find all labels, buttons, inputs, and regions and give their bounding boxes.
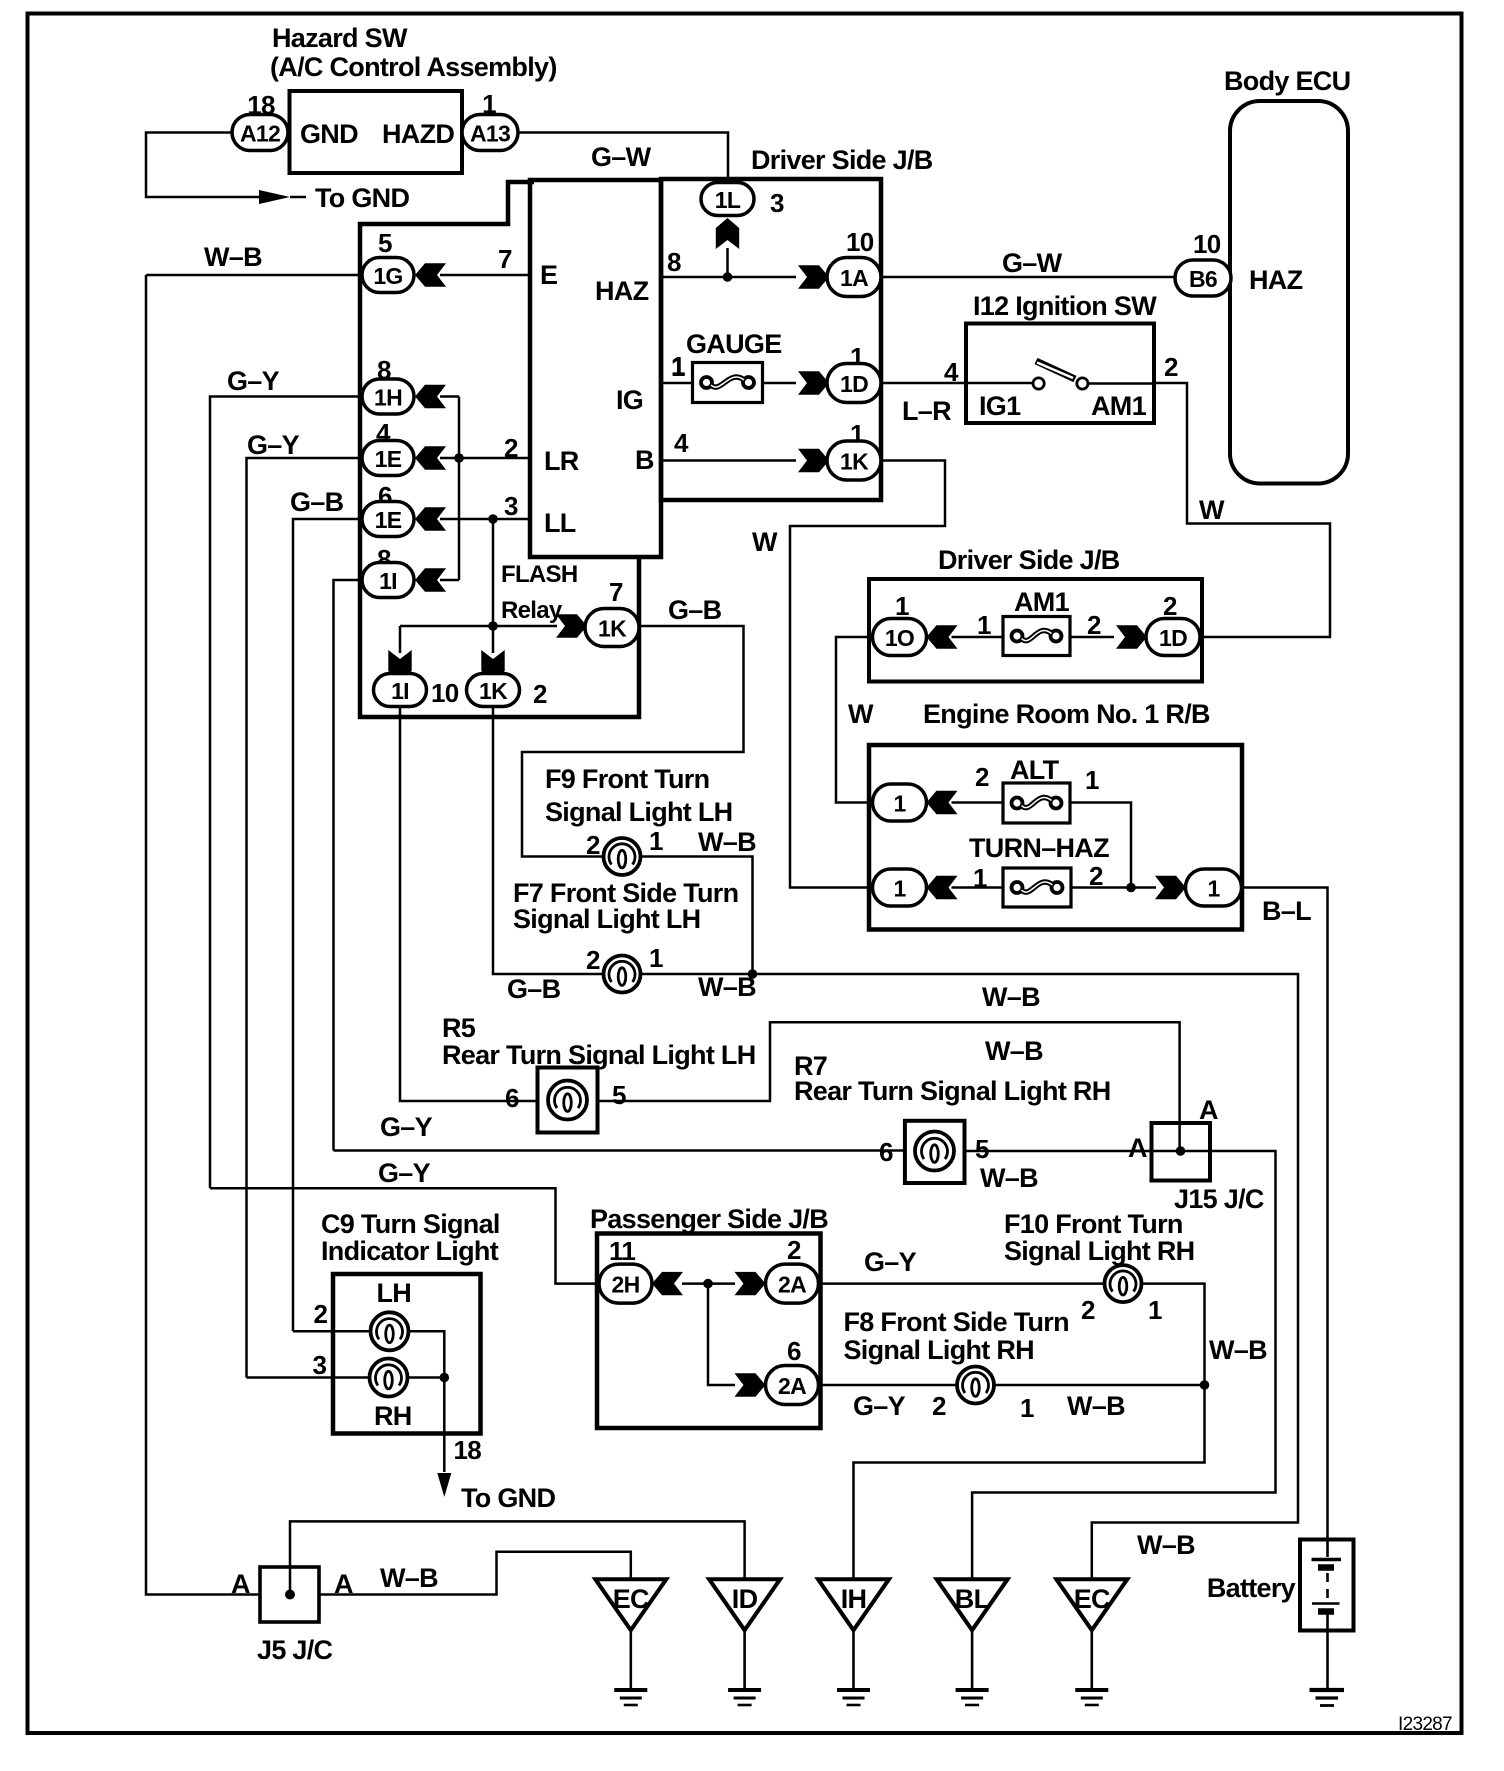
svg-text:W–B: W–B	[1067, 1391, 1125, 1421]
svg-text:18: 18	[454, 1435, 482, 1465]
arrow into 1D	[798, 371, 829, 394]
battery B1	[1300, 1540, 1354, 1631]
svg-text:6: 6	[505, 1083, 519, 1113]
connector pin 1E pin6	[362, 502, 414, 537]
junction block J15 box	[1152, 1123, 1211, 1181]
svg-text:J5 J/C: J5 J/C	[257, 1635, 333, 1665]
svg-text:2: 2	[1081, 1295, 1095, 1325]
vertical from LL junction down to flash wire and 1K	[492, 519, 495, 653]
wire F10 to W-B vertical	[1142, 1284, 1205, 1385]
wire W-B from F7 to EC ground run	[641, 974, 1299, 1579]
ignition switch lever	[1036, 361, 1075, 379]
wire 2H junction	[682, 1282, 735, 1285]
wire from A12 to ground pointer	[146, 133, 259, 198]
svg-text:F9 Front Turn: F9 Front Turn	[545, 764, 709, 794]
wire W from 1O to ALT fuse row	[836, 637, 873, 803]
svg-text:2: 2	[1087, 610, 1101, 640]
wire C9 pin 18 to ground pointer	[443, 1378, 446, 1473]
connector pin 1D lower	[1146, 619, 1200, 656]
svg-text:2: 2	[787, 1235, 801, 1265]
svg-text:1: 1	[1207, 876, 1220, 902]
fuse TURN-HAZ	[1003, 868, 1071, 907]
wire G-B from bottom 1K to F7 lamp	[493, 707, 604, 975]
connector pin 1I bottom	[374, 674, 427, 707]
svg-text:7: 7	[498, 244, 512, 274]
svg-text:I12 Ignition SW: I12 Ignition SW	[973, 291, 1157, 321]
down arrow into bottom 1I	[388, 650, 411, 681]
wire J5 up to ID ground branch	[290, 1521, 745, 1594]
wire 1D to ignition switch IG1	[881, 382, 1033, 385]
rear lamp R5 box	[538, 1068, 598, 1133]
connector pin 1K bottom	[467, 674, 520, 707]
C9 box	[333, 1274, 481, 1434]
svg-text:RH: RH	[374, 1401, 412, 1431]
wire W-B from 1G to left vertical	[146, 274, 362, 277]
svg-text:IG1: IG1	[979, 391, 1021, 421]
svg-text:B–L: B–L	[1262, 896, 1311, 926]
connector pin 1L	[701, 183, 754, 216]
wire G-Y 2A to F10 lamp	[819, 1282, 1105, 1285]
svg-text:W: W	[752, 527, 778, 557]
svg-text:1I: 1I	[379, 568, 397, 594]
wire G-W from 1A to B6	[881, 276, 1175, 279]
svg-text:1: 1	[649, 943, 663, 973]
svg-text:1: 1	[1085, 765, 1099, 795]
connector pin 2A lower	[766, 1366, 819, 1405]
ground IH	[818, 1579, 889, 1705]
rear lamp R7 box	[905, 1121, 965, 1183]
svg-text:LR: LR	[544, 446, 579, 476]
svg-text:6: 6	[787, 1336, 801, 1366]
svg-text:7: 7	[609, 577, 623, 607]
svg-text:Engine Room No. 1 R/B: Engine Room No. 1 R/B	[923, 699, 1210, 729]
wire F8 to junction	[994, 1384, 1205, 1387]
fuse AM1	[1003, 617, 1070, 656]
wire from relay pin E to 1G	[440, 274, 530, 277]
svg-text:1: 1	[649, 826, 663, 856]
svg-text:GAUGE: GAUGE	[686, 329, 782, 359]
connector pin 1K flash output	[585, 609, 639, 647]
svg-text:W–B: W–B	[204, 242, 262, 272]
svg-text:Body ECU: Body ECU	[1224, 66, 1350, 96]
arrow into 1G	[415, 263, 446, 286]
svg-text:J15 J/C: J15 J/C	[1174, 1184, 1264, 1214]
junction dot F9 F7	[748, 969, 758, 979]
svg-text:G–Y: G–Y	[378, 1158, 431, 1188]
svg-text:3: 3	[504, 491, 518, 521]
wire W-B from R7 through J15 to BL ground	[965, 1151, 1276, 1579]
svg-text:Passenger Side J/B: Passenger Side J/B	[590, 1204, 828, 1234]
ground EC left	[595, 1579, 666, 1705]
junction dot J15	[1176, 1146, 1186, 1156]
down arrow into bottom 1K	[481, 650, 504, 681]
junction block J5 box	[260, 1567, 319, 1622]
lamp C9 LH	[371, 1312, 409, 1350]
connector pin 1K	[827, 441, 881, 480]
svg-text:1D: 1D	[1159, 625, 1187, 651]
svg-text:Signal Light RH: Signal Light RH	[1004, 1236, 1194, 1266]
wire from HAZ row to 1L	[726, 248, 729, 277]
connector pin 1E pin4	[362, 441, 414, 476]
svg-text:1D: 1D	[840, 371, 868, 397]
hazard relay box	[530, 180, 661, 557]
wire G-Y into C9 RH lamp	[247, 1376, 370, 1379]
svg-text:ID: ID	[732, 1584, 758, 1614]
svg-text:1E: 1E	[375, 446, 402, 472]
svg-text:W–B: W–B	[1137, 1530, 1195, 1560]
svg-text:Driver Side J/B: Driver Side J/B	[751, 145, 933, 175]
wire ALT fuse to junction	[1070, 803, 1131, 888]
body ECU box	[1230, 101, 1348, 484]
svg-text:5: 5	[975, 1134, 989, 1164]
connector output pin 1 engine room	[1186, 869, 1242, 906]
lamp C9 RH	[370, 1359, 408, 1397]
arrow into 2A lower	[735, 1373, 766, 1396]
wire relay HAZ pin8 to 1A	[661, 276, 796, 279]
svg-text:EC: EC	[613, 1584, 649, 1614]
svg-text:AM1: AM1	[1014, 587, 1070, 617]
svg-text:10: 10	[846, 227, 874, 257]
svg-text:Signal Light RH: Signal Light RH	[844, 1335, 1034, 1365]
wire G-B into C9 LH lamp	[293, 1330, 371, 1333]
wire G-W from A13 to junction block pin 1L	[517, 133, 728, 181]
svg-text:1: 1	[671, 352, 685, 382]
ground EC right	[1056, 1579, 1127, 1705]
svg-text:4: 4	[944, 357, 959, 387]
svg-text:W: W	[1199, 495, 1225, 525]
ground BL	[937, 1579, 1008, 1705]
connector pin 1O	[873, 619, 927, 656]
ignition switch IG1 terminal	[1033, 378, 1044, 389]
wire G-Y 2A lower to F8 lamp	[819, 1384, 958, 1387]
lamp F7	[604, 956, 641, 993]
wire stub 1H to bus	[440, 395, 459, 398]
svg-text:Signal Light LH: Signal Light LH	[513, 904, 700, 934]
wire TURN-HAZ fuse to pin 1	[952, 886, 1004, 889]
wire GAUGE fuse to 1D	[763, 382, 797, 385]
svg-text:8: 8	[667, 247, 681, 277]
wire W-B from R5 to J15	[598, 1022, 1180, 1151]
svg-text:1: 1	[1020, 1393, 1034, 1423]
svg-text:1K: 1K	[479, 678, 508, 704]
wire G-Y from 1I to R7	[334, 1149, 905, 1152]
vertical bus tying 1H 1I and LR	[458, 397, 461, 581]
arrow into output pin 1	[1155, 876, 1186, 899]
svg-text:AM1: AM1	[1091, 391, 1147, 421]
svg-text:G–W: G–W	[591, 142, 652, 172]
wire ALT fuse to pin 1	[952, 801, 1004, 804]
svg-text:W–B: W–B	[980, 1163, 1038, 1193]
wire C9 RH lamp to join	[408, 1376, 445, 1379]
svg-text:F8 Front Side Turn: F8 Front Side Turn	[844, 1307, 1069, 1337]
lamp R5	[548, 1081, 587, 1120]
svg-text:2: 2	[314, 1299, 328, 1329]
wire AM1 from switch down to lower J/B 1D	[1088, 382, 1154, 385]
svg-text:G–W: G–W	[1002, 248, 1063, 278]
svg-text:(A/C Control Assembly): (A/C Control Assembly)	[270, 52, 557, 82]
svg-text:W–B: W–B	[698, 972, 756, 1002]
arrow into flash 1K	[556, 614, 587, 637]
wire W-B from 1G down to J5	[146, 275, 260, 1595]
arrow into 1O	[927, 625, 958, 648]
svg-text:W–B: W–B	[1209, 1335, 1267, 1365]
connector pin 2H	[599, 1264, 652, 1303]
svg-text:BL: BL	[955, 1584, 990, 1614]
svg-text:2: 2	[1163, 591, 1177, 621]
wire G-Y from bottom 1I to R5	[400, 707, 538, 1102]
svg-text:G–Y: G–Y	[864, 1247, 917, 1277]
svg-text:2: 2	[533, 679, 547, 709]
svg-text:IG: IG	[616, 385, 643, 415]
svg-text:5: 5	[378, 228, 392, 258]
lamp F10	[1105, 1265, 1142, 1302]
svg-text:W–B: W–B	[698, 827, 756, 857]
junction dot J5	[285, 1590, 295, 1600]
svg-text:1G: 1G	[373, 263, 402, 289]
svg-text:G–B: G–B	[507, 974, 561, 1004]
svg-text:IH: IH	[841, 1584, 867, 1614]
arrow into 1H	[415, 385, 446, 408]
svg-text:To GND: To GND	[315, 183, 409, 213]
svg-text:G–Y: G–Y	[853, 1391, 906, 1421]
connector pin 1 of TURN-HAZ row	[873, 869, 927, 906]
svg-text:Indicator Light: Indicator Light	[321, 1236, 499, 1266]
wire B-L from output oval to battery	[1242, 888, 1328, 1540]
wire J5 to EC ground branch	[319, 1552, 631, 1595]
svg-text:10: 10	[1193, 229, 1221, 259]
junction dot below 1L	[723, 272, 733, 282]
passenger side J/B box	[597, 1234, 821, 1429]
svg-text:HAZ: HAZ	[595, 276, 649, 306]
svg-text:HAZD: HAZD	[382, 119, 454, 149]
arrow into 1I	[415, 568, 446, 591]
wire from 1H to left vertical going to C9 area	[210, 397, 362, 1189]
junction dot TURN-HAZ ALT	[1126, 883, 1136, 893]
svg-text:2: 2	[932, 1391, 946, 1421]
svg-text:Driver Side J/B: Driver Side J/B	[938, 545, 1120, 575]
svg-text:G–B: G–B	[668, 595, 722, 625]
svg-text:HAZ: HAZ	[1249, 265, 1303, 295]
To GND arrow below C9	[437, 1473, 451, 1497]
svg-text:EC: EC	[1074, 1584, 1110, 1614]
fuse ALT	[1003, 783, 1070, 823]
arrow into 2A upper	[735, 1272, 766, 1295]
svg-text:Battery: Battery	[1207, 1573, 1296, 1603]
svg-text:1A: 1A	[840, 265, 868, 291]
vertical from flash wire to bottom 1I	[399, 626, 402, 653]
svg-text:B: B	[635, 445, 654, 475]
connector pin 2A upper	[766, 1264, 819, 1303]
svg-text:1: 1	[977, 610, 991, 640]
svg-text:LL: LL	[544, 508, 576, 538]
ignition switch AM1 terminal	[1077, 378, 1088, 389]
svg-text:TURN–HAZ: TURN–HAZ	[969, 833, 1109, 863]
connector pin 1A	[827, 258, 881, 297]
svg-text:2A: 2A	[778, 1373, 806, 1399]
svg-text:F10 Front Turn: F10 Front Turn	[1004, 1209, 1183, 1239]
lamp F8	[957, 1367, 994, 1404]
connector pin A13	[462, 115, 518, 151]
svg-text:Hazard SW: Hazard SW	[272, 23, 408, 53]
arrow into ALT row pin 1	[927, 791, 958, 814]
svg-text:GND: GND	[300, 119, 358, 149]
connector pin 1G	[362, 258, 414, 293]
fuse GAUGE	[693, 363, 763, 403]
junction dot passenger J/B	[703, 1279, 713, 1289]
arrow into 1A	[798, 265, 829, 288]
svg-text:To GND: To GND	[461, 1483, 555, 1513]
arrow into 2H	[652, 1272, 683, 1295]
wire from 1E pin4 to left vertical	[247, 458, 363, 1378]
connector pin 1H	[362, 379, 414, 414]
svg-text:A13: A13	[470, 121, 510, 147]
svg-text:A: A	[1128, 1133, 1147, 1163]
svg-text:2: 2	[586, 945, 600, 975]
svg-text:1E: 1E	[375, 507, 402, 533]
svg-text:1I: 1I	[391, 678, 409, 704]
To GND arrow	[259, 190, 290, 204]
svg-text:G–B: G–B	[290, 487, 344, 517]
svg-text:G–Y: G–Y	[247, 430, 300, 460]
wire AM1 fuse to 1D lower	[1070, 636, 1114, 639]
svg-text:1K: 1K	[840, 449, 869, 475]
ground ID	[709, 1579, 780, 1705]
wire fuse AM1 to 1O	[952, 636, 1004, 639]
svg-text:Rear Turn Signal Light RH: Rear Turn Signal Light RH	[794, 1076, 1111, 1106]
svg-text:A12: A12	[240, 121, 280, 147]
connector pin 1 of ALT row	[873, 784, 927, 821]
junction dot flash wire	[488, 621, 498, 631]
svg-text:A: A	[1199, 1095, 1218, 1125]
wire relay B pin4 to 1K	[661, 459, 796, 462]
svg-text:FLASH: FLASH	[501, 561, 578, 588]
svg-text:A: A	[231, 1569, 250, 1599]
svg-text:1: 1	[895, 591, 909, 621]
svg-text:1: 1	[893, 876, 906, 902]
svg-text:Relay: Relay	[501, 597, 563, 624]
svg-text:5: 5	[612, 1080, 626, 1110]
svg-text:W–B: W–B	[380, 1563, 438, 1593]
wire from relay LL to 1E pin6	[440, 518, 530, 521]
svg-text:3: 3	[770, 188, 784, 218]
arrow into 1E pin6	[415, 507, 446, 530]
wire flash relay output	[400, 625, 557, 628]
wire junction down to 2A lower	[708, 1284, 735, 1385]
hazard switch SW1 box	[290, 91, 463, 173]
svg-text:E: E	[540, 260, 557, 290]
wire battery to ground	[1326, 1631, 1329, 1689]
svg-text:W–B: W–B	[985, 1036, 1043, 1066]
wire G-Y from 1H vertical to 2H	[210, 1188, 599, 1283]
svg-text:C9 Turn Signal: C9 Turn Signal	[321, 1209, 500, 1239]
junction dot LR bus	[454, 453, 464, 463]
connector pin 1D	[827, 364, 881, 403]
svg-text:11: 11	[609, 1236, 635, 1266]
svg-text:6: 6	[879, 1137, 893, 1167]
svg-text:2: 2	[1164, 352, 1178, 382]
svg-text:2: 2	[975, 762, 989, 792]
svg-text:ALT: ALT	[1010, 755, 1060, 785]
arrow into 1K	[798, 449, 829, 472]
svg-text:3: 3	[313, 1350, 327, 1380]
svg-text:Signal Light LH: Signal Light LH	[545, 797, 732, 827]
wire from 1E pin6 to left vertical	[293, 519, 362, 1331]
lamp R7	[915, 1132, 954, 1171]
svg-text:1: 1	[893, 791, 906, 817]
engine room R/B box	[869, 745, 1242, 930]
wire from relay LR to 1E	[440, 457, 530, 460]
lamp F9	[604, 838, 641, 875]
svg-text:1H: 1H	[374, 385, 402, 411]
svg-text:LH: LH	[377, 1278, 412, 1308]
wire TURN-HAZ fuse to output oval	[1071, 886, 1156, 889]
junction dot LL wire	[488, 514, 498, 524]
up arrow into 1L	[716, 218, 739, 249]
svg-text:2H: 2H	[611, 1272, 639, 1298]
arrow into 1E pin4	[415, 446, 446, 469]
arrow into TURN-HAZ row pin 1	[927, 876, 958, 899]
svg-text:2A: 2A	[778, 1272, 806, 1298]
connector pin A12	[232, 115, 288, 151]
wire W from 1K to TURN-HAZ input	[790, 461, 945, 888]
wire F9 output down to F7 row	[641, 857, 753, 975]
wire from 1I to left vertical going to R7	[334, 580, 363, 1151]
svg-text:W: W	[848, 699, 874, 729]
svg-text:W–B: W–B	[982, 982, 1040, 1012]
svg-text:1K: 1K	[598, 616, 627, 642]
junction dot F8 F10	[1200, 1380, 1210, 1390]
arrow into 1D lower	[1116, 625, 1147, 648]
connector pin 1I	[362, 563, 414, 598]
junction dot C9	[440, 1373, 450, 1383]
svg-text:G–Y: G–Y	[227, 366, 280, 396]
svg-text:L–R: L–R	[902, 396, 951, 426]
wire W-B down to IH ground	[854, 1385, 1205, 1579]
driver side J/B lower box	[869, 579, 1202, 682]
driver side J/B connector box outline	[360, 182, 639, 717]
svg-text:1L: 1L	[715, 187, 741, 213]
ignition switch I12 box	[966, 324, 1154, 424]
svg-text:2: 2	[586, 830, 600, 860]
driver side J/B box upper right	[661, 179, 881, 500]
svg-text:I23287: I23287	[1398, 1714, 1452, 1735]
svg-text:1: 1	[1148, 1295, 1162, 1325]
svg-text:4: 4	[674, 428, 689, 458]
svg-text:1O: 1O	[885, 625, 914, 651]
wire C9 LH lamp to join	[409, 1331, 445, 1377]
wire G-B flash 1K to F9 lamp	[522, 626, 744, 857]
battery ground symbol	[1310, 1690, 1345, 1706]
svg-text:10: 10	[431, 678, 459, 708]
svg-text:R5: R5	[442, 1013, 476, 1043]
svg-text:B6: B6	[1189, 266, 1217, 292]
wire relay IG to GAUGE fuse	[661, 382, 693, 385]
svg-text:G–Y: G–Y	[380, 1112, 433, 1142]
connector pin B6	[1175, 260, 1231, 296]
wire stub 1I to bus	[440, 579, 459, 582]
